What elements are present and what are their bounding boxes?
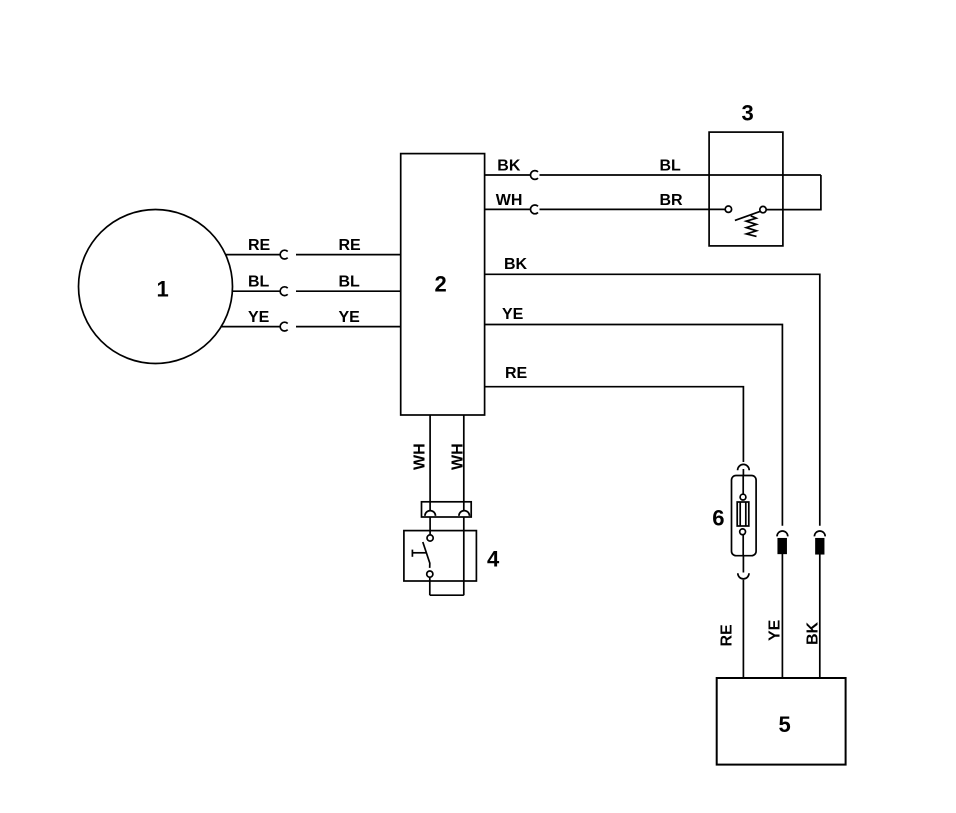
- connector on WH/BR wire: [530, 205, 538, 214]
- wire YE from 1 to connector: [221, 326, 281, 328]
- fuse bottom lead: [742, 535, 744, 555]
- svg-text:6: 6: [712, 506, 724, 531]
- svg-text:4: 4: [487, 546, 500, 571]
- wire BK from 2 to right column: [485, 274, 820, 526]
- connector on YE wire: [280, 322, 288, 331]
- switch actuator bar in 4: [412, 552, 426, 554]
- wire BR from connector to switch in 3: [540, 208, 726, 210]
- connector cup below fuse: [738, 573, 749, 579]
- switch actuator tick in 4: [411, 550, 413, 557]
- wire YE from connector to 2: [296, 326, 401, 328]
- component 2 (control unit box): [401, 154, 485, 415]
- switch blade in 3: [735, 211, 761, 220]
- wire RE from connector to 2: [296, 254, 401, 256]
- fuse element outer: [737, 502, 749, 526]
- svg-text:RE: RE: [248, 237, 271, 254]
- svg-text:BR: BR: [660, 192, 684, 209]
- wire BL from connector to 2: [296, 290, 401, 292]
- connector on BL wire: [280, 287, 288, 296]
- svg-text:BK: BK: [497, 157, 521, 174]
- fuse element inner left: [739, 502, 741, 526]
- wire left from block to 4: [429, 517, 431, 535]
- wire left inside block: [429, 502, 431, 511]
- terminal sleeve on BK column: [816, 539, 824, 554]
- wire from right contact to 3 edge: [766, 209, 783, 211]
- component 3 (relay box): [709, 132, 783, 246]
- wire loop right of 3: [783, 175, 821, 210]
- wire RE from cup to 5: [742, 580, 744, 678]
- switch contact left in 3: [725, 206, 731, 212]
- fuse 6 body: [732, 476, 757, 556]
- svg-text:WH: WH: [412, 443, 429, 470]
- svg-text:YE: YE: [339, 309, 361, 326]
- svg-text:2: 2: [435, 272, 447, 297]
- hook terminal left in block: [425, 511, 436, 516]
- wire YE from sleeve to 5: [781, 553, 783, 678]
- connector cap on RE wire above fuse: [738, 464, 750, 470]
- svg-text:RE: RE: [505, 365, 528, 382]
- svg-text:BK: BK: [805, 621, 822, 645]
- component 1 (generator circle): [79, 210, 233, 364]
- wire from bottom contact down: [429, 577, 431, 595]
- wire BL from 1 to connector: [232, 290, 280, 292]
- wire WH from 2 to connector: [485, 208, 531, 210]
- fuse top lead: [742, 475, 744, 494]
- svg-text:BL: BL: [248, 274, 270, 291]
- switch top contact in 4: [427, 535, 433, 541]
- wire loop below 4: [430, 594, 464, 596]
- svg-text:1: 1: [157, 276, 169, 301]
- switch blade in 4: [423, 542, 430, 568]
- svg-text:3: 3: [742, 100, 754, 125]
- terminal sleeve on YE column: [778, 539, 786, 554]
- component 5 (battery box): [717, 678, 846, 765]
- svg-text:BL: BL: [660, 157, 682, 174]
- svg-text:YE: YE: [248, 309, 270, 326]
- connector block: [422, 502, 472, 517]
- fuse top terminal circle: [740, 494, 746, 500]
- wire YE from 2 to middle column: [485, 325, 783, 526]
- wire right inside block: [463, 502, 465, 511]
- svg-text:BL: BL: [339, 274, 361, 291]
- wire RE below fuse: [742, 555, 744, 572]
- wire WH left from 2 down: [429, 415, 431, 502]
- component 4 (switch box): [404, 531, 477, 581]
- hook terminal right in block: [459, 511, 470, 516]
- svg-text:RE: RE: [719, 624, 736, 647]
- fuse bottom terminal circle: [740, 529, 746, 535]
- svg-text:WH: WH: [450, 443, 467, 470]
- wire right from block through 4: [463, 517, 465, 595]
- connector on BK/BL wire: [530, 171, 538, 180]
- connector cap on BK column: [814, 531, 825, 536]
- spring in 3: [746, 216, 756, 237]
- fuse element inner right: [745, 502, 747, 526]
- wire BK from 2 to connector (top): [485, 174, 531, 176]
- svg-text:5: 5: [779, 712, 791, 737]
- switch contact right in 3: [760, 206, 766, 212]
- svg-text:WH: WH: [496, 192, 523, 209]
- wire WH right from 2 down: [463, 415, 465, 502]
- svg-text:YE: YE: [502, 306, 524, 323]
- connector cap on YE column: [777, 531, 788, 536]
- svg-text:YE: YE: [767, 619, 784, 641]
- svg-text:BK: BK: [504, 256, 528, 273]
- wire RE from 1 to connector: [226, 254, 281, 256]
- connector on RE wire: [280, 250, 288, 259]
- wire BK from sleeve to 5: [819, 554, 821, 678]
- switch bottom contact in 4: [427, 571, 433, 577]
- wire RE from 2 to fuse column: [485, 387, 744, 462]
- wire BL from connector through 3: [540, 174, 821, 176]
- svg-text:RE: RE: [339, 237, 362, 254]
